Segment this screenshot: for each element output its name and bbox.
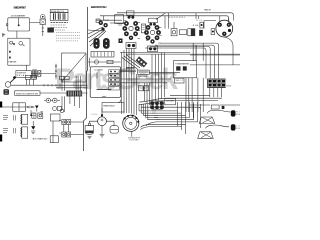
svg-text:AUTO TRANS ONLY: AUTO TRANS ONLY: [33, 137, 49, 140]
svg-text:BM: BM: [236, 114, 240, 116]
svg-text:TURN SIGNAL: TURN SIGNAL: [138, 75, 148, 78]
svg-text:8 CYL ENG: 8 CYL ENG: [130, 140, 140, 142]
svg-text:FUSE BLOCK: FUSE BLOCK: [51, 11, 65, 13]
svg-text:16 VOLT BATTERY: 16 VOLT BATTERY: [11, 14, 26, 17]
svg-text:FUEL TANK: FUEL TANK: [166, 100, 175, 103]
svg-text:CLUSTER: CLUSTER: [94, 69, 104, 71]
svg-text:PLUG: PLUG: [226, 86, 232, 88]
svg-text:TAIL LP: TAIL LP: [176, 79, 184, 82]
svg-text:STARTER: STARTER: [17, 72, 27, 75]
svg-text:PRINTED CIRCUIT: PRINTED CIRCUIT: [103, 106, 116, 108]
svg-text:BM: BM: [236, 128, 240, 130]
svg-text:B LU: B LU: [197, 20, 203, 22]
svg-text:TO SW: TO SW: [104, 20, 109, 22]
svg-text:EL ALTERNATOR SYSTEM: EL ALTERNATOR SYSTEM: [91, 5, 107, 9]
svg-text:IGNITION STARTER SW: IGNITION STARTER SW: [16, 92, 38, 95]
svg-text:ENGINE COMPARTMENT: ENGINE COMPARTMENT: [14, 6, 27, 10]
svg-text:STARTER: STARTER: [8, 61, 17, 64]
svg-text:HEAD LPS: HEAD LPS: [204, 9, 212, 12]
svg-text:TO REAR HARNESS: TO REAR HARNESS: [175, 63, 190, 66]
svg-text:COIL: COIL: [91, 114, 97, 116]
svg-text:A AA: A AA: [193, 24, 199, 27]
